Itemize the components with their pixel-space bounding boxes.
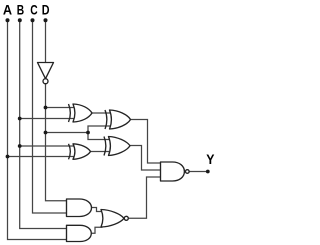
XOR gate X3 body bbox=[73, 144, 91, 160]
junction node on B at XOR3 top input bbox=[18, 144, 22, 148]
XOR gate X4 body bbox=[109, 137, 131, 156]
inverter NOT gate on D bbox=[38, 63, 54, 79]
input pin C bbox=[31, 18, 35, 22]
wire node J1 down to XOR4 top input bbox=[88, 133, 109, 140]
wire A bbox=[8, 21, 67, 240]
AND gate A1 bbox=[67, 199, 92, 217]
wire XOR2 output to NAND input 1 bbox=[131, 120, 162, 164]
wire XOR4 output to NAND input 2 bbox=[130, 146, 162, 171]
wire NAND output to Y bbox=[189, 171, 206, 173]
XOR gate X3 input arc bbox=[69, 144, 71, 160]
svg-text:A: A bbox=[3, 1, 12, 17]
wire D bbox=[46, 21, 67, 201]
junction node on B at XOR1 bottom input bbox=[18, 117, 22, 121]
NOR gate body bbox=[101, 210, 124, 228]
junction node on D-bar at XOR1 top input bbox=[44, 106, 48, 110]
wire D-bar to XOR1 top input bbox=[46, 107, 75, 109]
XOR gate X1 input arc bbox=[69, 104, 71, 122]
wire AND1 output to NOR top input bbox=[91, 208, 103, 212]
wire B to XOR1 bottom input bbox=[20, 118, 74, 120]
wire C bbox=[33, 21, 67, 214]
inverter output bubble bbox=[43, 79, 48, 84]
input pin B bbox=[18, 18, 22, 22]
input pin A bbox=[6, 18, 10, 22]
NAND gate output bubble bbox=[185, 170, 189, 174]
svg-text:C: C bbox=[30, 1, 37, 17]
XOR gate X1 body bbox=[73, 104, 92, 122]
svg-text:Y: Y bbox=[206, 151, 215, 167]
wire A to XOR3 bottom input bbox=[8, 156, 74, 158]
input pin D bbox=[44, 18, 48, 22]
output pin Y bbox=[206, 170, 210, 174]
junction node J1 bbox=[86, 131, 90, 135]
wire NOR output to NAND input 3 bbox=[128, 177, 161, 218]
junction node on A at XOR3 bottom input bbox=[6, 155, 10, 159]
XOR gate X2 body bbox=[110, 110, 131, 129]
wire B to XOR3 top input bbox=[20, 145, 74, 147]
NAND gate body bbox=[161, 162, 185, 181]
wire XOR3 output to XOR4 bottom input bbox=[91, 151, 110, 153]
NOR gate output bubble bbox=[124, 216, 128, 220]
wire AND2 output to NOR bottom input bbox=[91, 227, 103, 233]
junction node on D-bar second tap bbox=[44, 131, 48, 135]
wire B bbox=[20, 21, 67, 229]
AND gate A2 bbox=[67, 225, 92, 241]
svg-text:B: B bbox=[17, 1, 24, 17]
wire XOR1 output to XOR2 top input bbox=[92, 112, 110, 114]
XOR gate X2 input arc bbox=[105, 110, 107, 129]
wire D-bar second tap to node J1 bbox=[46, 132, 89, 134]
XOR gate X4 input arc bbox=[104, 137, 106, 156]
svg-text:D: D bbox=[42, 1, 50, 17]
wire node J1 up to XOR2 bottom input bbox=[88, 126, 110, 133]
